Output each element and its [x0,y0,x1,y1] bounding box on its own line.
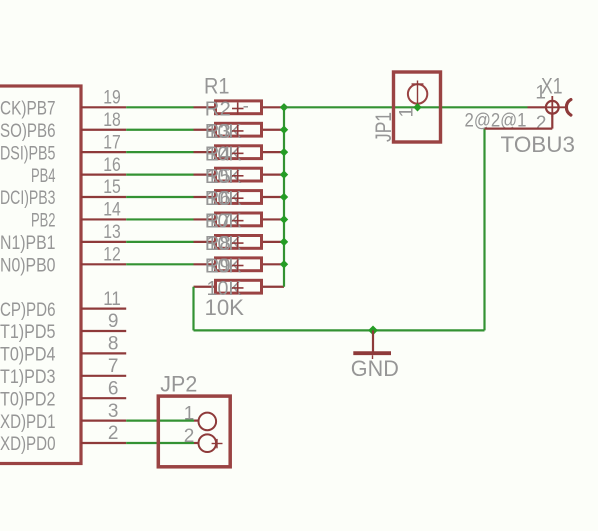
X1 pin 2 bent line (red) [485,114,553,129]
wire vertical bus joining resistor right pins [283,107,285,286]
IC pin 8 (T0)PD4) [0,334,126,366]
connector JP1 box [394,72,441,142]
svg-text:N0)PB0: N0)PB0 [0,256,56,277]
svg-text:R5: R5 [205,166,231,188]
svg-text:T0)PD4: T0)PD4 [0,345,56,366]
wire GND rail horizontal [194,329,485,331]
svg-text:XD)PD0: XD)PD0 [0,434,55,455]
svg-text:CK)PB7: CK)PB7 [0,99,56,120]
JP1 pin number 1 (rotated) [397,107,418,118]
JP2 pin 2 stub [194,442,199,444]
JP2 origin cross [212,439,223,448]
svg-text:R9: R9 [205,256,231,278]
wire net from pin 17 to resistor [126,151,193,153]
svg-text:19: 19 [103,88,121,109]
svg-text:SO)PB6: SO)PB6 [0,121,56,142]
svg-text:10K: 10K [205,295,245,320]
wire from bus to X1 pin 1 through JP1 [284,106,528,108]
junction at bus row 19 [280,103,288,111]
svg-text:12: 12 [103,245,121,266]
svg-text:DSI)PB5: DSI)PB5 [0,143,56,164]
wire net from pin 13 to resistor [126,241,193,243]
svg-text:1: 1 [184,403,195,424]
X1 crescent contact symbol [566,100,571,116]
IC pin 7 (T1)PD3) [0,356,126,388]
resistor R3 (element of array R1, 10K) [194,121,285,143]
svg-text:GND: GND [351,356,399,381]
resistor R6 (element of array R1, 10K) [194,188,285,210]
svg-text:2: 2 [536,113,547,134]
JP2 pin number 2 [184,426,195,447]
wire from bottom resistor to GND rail [192,287,194,331]
svg-text:TOBU3: TOBU3 [501,132,576,157]
JP2 pin 2 circle [199,434,217,452]
resistor R8 (element of array R1, 10K) [194,233,285,255]
svg-text:R3: R3 [205,121,231,143]
svg-text:3: 3 [108,401,119,422]
IC pin 18 (SO)PB6) [0,110,126,142]
JP1 pin 1 cross and pin line [412,81,424,107]
svg-text:16: 16 [103,155,121,176]
svg-text:DCI)PB3: DCI)PB3 [0,188,56,209]
X1 pin 1 circle with cross [546,96,568,117]
wire net from pin 19 to resistor [126,106,193,108]
IC pin 16 (PB4) [31,155,126,187]
resistor R9 (element of array R1, 10K) [194,256,285,278]
svg-text:8: 8 [108,334,119,355]
wire net from pin 18 to resistor [126,129,193,131]
IC pin 11 (CP)PD6) [0,289,126,321]
JP2 pin 1 stub [194,420,199,422]
svg-text:18: 18 [103,110,121,131]
JP2 pin number 1 [184,403,195,424]
junction at bus row 13 [280,238,288,246]
IC pin 2 (XD)PD0) [0,423,126,455]
IC pin 19 (CK)PB7) [0,88,126,120]
resistor R5 (element of array R1, 10K) [194,166,285,188]
svg-text:2: 2 [184,426,195,447]
svg-text:R6: R6 [205,188,231,210]
svg-text:2: 2 [108,423,119,444]
svg-text:14: 14 [103,200,121,221]
JP1 name label (rotated) [371,112,396,142]
svg-text:6: 6 [108,378,119,399]
IC pin 13 (N1)PB1) [0,222,126,254]
X1 pin number 2 [536,113,547,134]
X1 value label TOBU3 [501,132,576,157]
JP1 pin 1 circle [408,84,427,103]
svg-text:JP2: JP2 [160,372,197,397]
wire net from pin 14 to resistor [126,218,193,220]
svg-text:1: 1 [535,83,546,104]
IC pin 3 (XD)PD1) [0,401,126,433]
svg-text:R8: R8 [205,233,231,255]
resistor R10 (element of array R1, 10K) [194,278,285,300]
svg-text:CP)PD6: CP)PD6 [0,300,55,321]
svg-text:7: 7 [108,356,119,377]
connector X1 name label [541,74,563,99]
IC pin 6 (T0)PD2) [0,378,126,410]
svg-text:T1)PD3: T1)PD3 [0,367,56,388]
svg-text:N1)PB1: N1)PB1 [0,233,56,254]
svg-text:15: 15 [103,177,121,198]
resistor R4 (element of array R1, 10K) [194,143,285,165]
svg-text:R7: R7 [205,211,231,233]
junction at bus row 15 [280,193,288,201]
IC pin 9 (T1)PD5) [0,311,126,343]
junction at bus row 18 [280,126,288,134]
svg-text:R1: R1 [204,74,230,99]
IC pin 15 (DCI)PB3) [0,177,126,209]
svg-text:9: 9 [108,311,119,332]
JP2 pin 1 circle [199,413,217,431]
ground symbol GND [353,330,391,359]
junction at bus row 17 [280,148,288,156]
junction at JP1 pin 1 [413,103,421,111]
X1 pin 1 line (red) [528,106,547,108]
X1 pin number 1 [535,83,546,104]
svg-text:11: 11 [103,289,121,310]
resistor array name label R1 [204,74,230,99]
connector JP2 name label [160,372,197,397]
IC pin 14 (PB2) [31,200,126,232]
svg-text:17: 17 [103,132,121,153]
wire net from pin 16 to resistor [126,173,193,175]
svg-text:13: 13 [103,222,121,243]
svg-text:PB2: PB2 [31,211,56,232]
wire from GND rail up to X1 pin 2 [483,129,485,331]
svg-text:R4: R4 [205,143,231,165]
svg-text:T0)PD2: T0)PD2 [0,389,56,410]
resistor R2 (element of array R1, 10K) [194,99,285,121]
junction at bus row 14 [280,215,288,223]
svg-text:XD)PD1: XD)PD1 [0,412,55,433]
X1 overlapping labels 2@2@1 [465,111,527,132]
wire net from pin 2 (PD0) to JP2 pin 2 [126,442,194,444]
resistor array value label 10K [205,295,245,320]
junction at bus row 16 [280,170,288,178]
svg-text:PB4: PB4 [31,166,56,187]
wire net from pin 15 to resistor [126,196,193,198]
svg-text:1: 1 [397,107,418,118]
wire net from pin 3 (PD1) to JP2 pin 1 [126,420,194,422]
IC U1 body (partially off-canvas) [0,86,81,464]
connector JP2 box [158,396,230,467]
svg-text:R2: R2 [205,99,231,121]
svg-text:JP1: JP1 [371,112,396,142]
IC pin 17 (DSI)PB5) [0,132,126,164]
wire net from pin 12 to resistor [126,263,193,265]
junction at GND tap [368,326,378,336]
GND label [351,356,399,381]
IC pin 12 (N0)PB0) [0,245,126,277]
svg-text:T1)PD5: T1)PD5 [0,322,56,343]
resistor R7 (element of array R1, 10K) [194,211,285,233]
junction at bus row 12 [280,260,288,268]
